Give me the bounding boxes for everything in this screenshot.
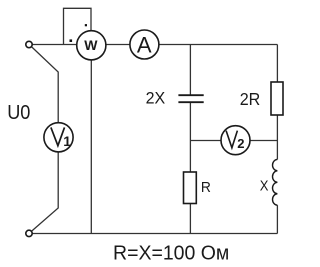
wire wattmeter voltage loop	[64, 8, 92, 44]
svg-text:2X: 2X	[146, 89, 166, 108]
svg-text:A: A	[137, 32, 152, 57]
wire top left horizontal	[32, 44, 77, 46]
wire V2 right (V2 to right branch)	[250, 140, 278, 142]
svg-text:R=X=100 Ом: R=X=100 Ом	[113, 242, 229, 265]
wire right branch top (corner to 2R)	[276, 45, 278, 83]
resistor R body	[184, 172, 197, 204]
terminal bottom-left	[26, 230, 32, 236]
wattmeter polarity dot upper	[85, 24, 87, 26]
resistor 2R body	[271, 82, 283, 115]
wire R resistor to bottom wire	[189, 204, 191, 234]
svg-text:X: X	[260, 179, 269, 195]
wire V2 left (node to V2)	[190, 140, 221, 142]
svg-text:U0: U0	[7, 101, 30, 124]
wattmeter W circle	[77, 31, 106, 60]
svg-text:2: 2	[237, 136, 244, 151]
svg-text:1: 1	[63, 133, 71, 149]
label V of V2	[226, 131, 237, 148]
ammeter A circle	[130, 30, 159, 59]
inductor X coil	[273, 159, 278, 205]
wire V1 branch top diagonal	[32, 47, 58, 123]
capacitor 2X plates	[178, 95, 203, 102]
wire wattmeter to bottom wire	[90, 60, 92, 234]
wire inductor to bottom-right corner	[276, 205, 278, 233]
wire W to A	[106, 44, 130, 46]
terminal top-left	[26, 41, 32, 47]
wattmeter polarity dot lower	[70, 39, 73, 42]
wire V1 branch bottom diagonal	[32, 152, 59, 231]
svg-text:R: R	[201, 180, 211, 196]
voltmeter V2 circle	[221, 126, 250, 155]
wire 2R to inductor X	[276, 115, 278, 159]
wire middle branch top (top wire to capacitor)	[189, 45, 191, 95]
svg-text:W: W	[84, 37, 98, 53]
voltmeter V1 circle	[44, 123, 73, 152]
wire A to top-right corner	[159, 44, 278, 46]
label V of V1	[51, 127, 65, 145]
wire bottom horizontal	[32, 233, 277, 235]
wire capacitor to R resistor	[189, 103, 191, 173]
svg-text:2R: 2R	[240, 89, 261, 109]
